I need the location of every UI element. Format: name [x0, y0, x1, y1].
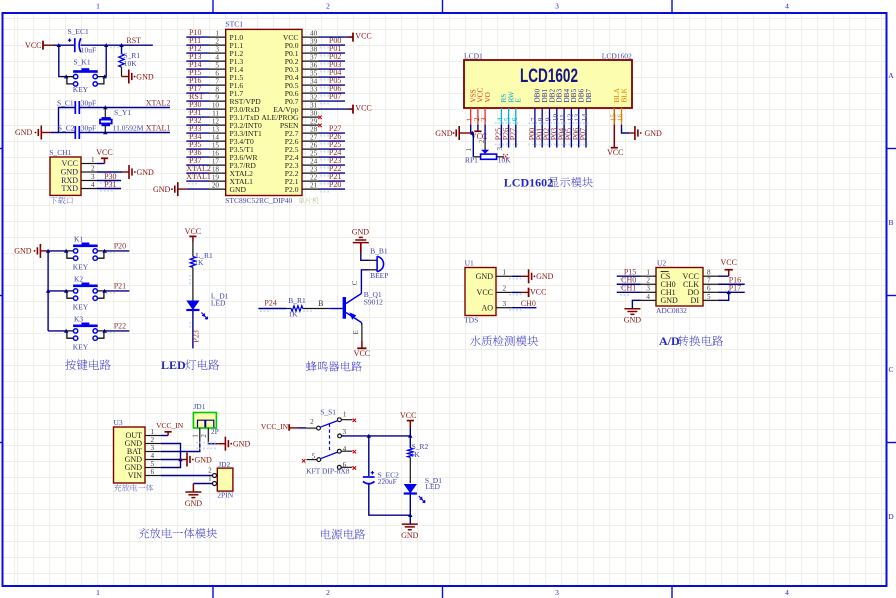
pin 1 STC1 P1.0 [209, 30, 243, 42]
capacitor S_C2 30pF [58, 123, 96, 139]
svg-text:1: 1 [465, 148, 473, 152]
svg-text:36: 36 [310, 62, 318, 70]
svg-text:D: D [888, 512, 894, 521]
wire net P01 (LCD1 pin 8) [535, 122, 545, 147]
pin 2 U3 [145, 436, 161, 444]
svg-text:B_B1: B_B1 [370, 246, 388, 255]
svg-text:4: 4 [785, 2, 789, 11]
caption key circuit [65, 359, 111, 370]
svg-text:GND: GND [476, 272, 494, 281]
svg-text:S_S1: S_S1 [320, 408, 336, 417]
wire net P10 (STC1 pin 1) [186, 28, 209, 40]
caption MCU [298, 197, 319, 203]
svg-text:1: 1 [503, 268, 507, 276]
wire net P05 (LCD1 pin 12) [564, 122, 574, 147]
capacitor S_C1 30pF [57, 98, 96, 114]
pin 3 U3 [145, 444, 161, 452]
wire net P30 (STC1 pin 10) [186, 100, 209, 112]
svg-text:XTAL2: XTAL2 [146, 98, 171, 107]
svg-text:P20: P20 [329, 180, 341, 189]
svg-text:LCD1602: LCD1602 [602, 51, 632, 60]
pin 6 U3 [145, 468, 161, 476]
junction (K1 left pin) [64, 249, 68, 253]
svg-text:LED: LED [211, 298, 226, 307]
wire cap to RST [81, 44, 153, 46]
ground (S_CH1 pin2) [97, 165, 154, 179]
junction (U3 gnd rail) [178, 457, 182, 461]
pin 4 S_CH1 [81, 181, 97, 189]
svg-text:10K: 10K [498, 155, 512, 164]
net label XTAL1 [146, 124, 171, 133]
svg-text:C: C [888, 365, 893, 374]
pin 2 S_CH1 [81, 164, 97, 172]
ground (JD1 pin2) [196, 437, 250, 451]
caption LCD1602 display module [504, 175, 593, 189]
svg-text:3: 3 [343, 428, 347, 436]
wire net P00 (STC1 pin 39) [319, 36, 346, 48]
ground (LCD1 BLK) [622, 125, 663, 140]
svg-text:26: 26 [310, 142, 318, 150]
wire net P14 (STC1 pin 5) [186, 60, 209, 72]
pin 37 STC1 P0.2 [285, 54, 319, 66]
svg-text:2: 2 [200, 434, 208, 438]
wire net P21 (STC1 pin 22) [319, 172, 346, 184]
svg-text:GND: GND [536, 272, 554, 281]
wire net P04 (STC1 pin 35) [319, 68, 346, 80]
wire P30 (S_CH1) [97, 172, 121, 184]
caption charger module [139, 528, 217, 538]
no connect (RP1 pin3) [503, 154, 507, 158]
svg-text:37: 37 [310, 54, 318, 62]
pin 3 STC1 P1.2 [209, 46, 243, 58]
connector S_CH1 (download port) [49, 148, 81, 195]
pin 2 STC1 P1.1 [209, 38, 243, 50]
svg-text:LCD1602: LCD1602 [520, 66, 578, 87]
svg-text:P17: P17 [729, 283, 741, 292]
wire VO to RP1 wiper [478, 125, 486, 150]
svg-text:1: 1 [151, 428, 155, 436]
power port VCC (reset) [25, 41, 53, 50]
svg-text:3: 3 [646, 285, 650, 293]
wire net P25 (STC1 pin 26) [319, 140, 346, 152]
svg-text:1: 1 [646, 269, 650, 277]
caption power circuit [321, 529, 365, 539]
power port VCC_IN (U3 pin1) [156, 421, 184, 436]
pin 40 STC1 VCC [283, 30, 319, 42]
svg-text:KFT DIP-8X8: KFT DIP-8X8 [306, 466, 350, 475]
pin 15 LCD1 BLA [608, 87, 621, 124]
ground (keys) [14, 244, 48, 258]
pin 36 STC1 P0.3 [285, 62, 319, 74]
pin 4 U2 [641, 293, 657, 301]
svg-text:2: 2 [310, 418, 314, 426]
wire K1 right leg [104, 45, 106, 76]
svg-text:1K: 1K [288, 309, 298, 318]
svg-text:VCC: VCC [355, 32, 371, 41]
svg-text:3: 3 [91, 173, 95, 181]
net label RST [110, 36, 141, 49]
svg-text:CH1: CH1 [621, 283, 636, 292]
wire net P06 (LCD1 pin 13) [571, 122, 581, 147]
connector JD1 2P battery [193, 402, 218, 436]
ground (LCD1 VSS) [435, 125, 470, 140]
pin 6 U2 [703, 285, 718, 293]
svg-text:2P: 2P [211, 427, 219, 436]
svg-text:14: 14 [580, 114, 589, 122]
switch S_K1 KEY [67, 57, 104, 94]
caption LED circuit [161, 358, 219, 372]
ground (buzzer) [352, 227, 370, 253]
svg-text:34: 34 [310, 78, 318, 86]
svg-text:S9012: S9012 [364, 297, 383, 306]
svg-text:29: 29 [310, 118, 318, 126]
svg-text:21: 21 [310, 182, 318, 190]
wire RP1 pin1 to GND net [471, 133, 474, 157]
wire net P02 (STC1 pin 37) [319, 52, 346, 64]
junction (K3 left pin) [64, 329, 68, 333]
switch K3 KEY [67, 315, 104, 352]
wire K1 left leg [59, 45, 67, 76]
svg-text:P27: P27 [509, 128, 518, 140]
resistor S_R1 10K [119, 45, 141, 76]
svg-text:P24: P24 [264, 298, 276, 307]
svg-text:3: 3 [496, 147, 504, 151]
wire net P25 (LCD1 pin 4) [494, 122, 504, 147]
svg-text:VCC: VCC [96, 148, 112, 157]
wire net XTAL2 (STC1 pin 18) [186, 164, 211, 176]
svg-text:220uF: 220uF [378, 477, 397, 486]
svg-text:20: 20 [212, 182, 220, 190]
svg-text:2: 2 [646, 277, 650, 285]
pin 20 STC1 GND [209, 182, 246, 194]
junction (K1 right) [104, 43, 108, 47]
ground (STC1 pin20) [153, 182, 209, 196]
power port VCC (STC1 pin40) [319, 32, 372, 42]
svg-text:XTAL1: XTAL1 [146, 124, 171, 133]
svg-text:3: 3 [479, 117, 488, 121]
power port VCC (LCD1 pin2) [471, 125, 487, 141]
svg-text:S_EC1: S_EC1 [68, 27, 90, 36]
svg-text:2: 2 [326, 2, 330, 11]
caption download port [50, 197, 73, 204]
svg-text:GND: GND [624, 316, 642, 325]
wire net P31 (STC1 pin 11) [186, 108, 209, 120]
svg-text:14: 14 [212, 134, 220, 142]
pin 3 S_CH1 [81, 173, 97, 181]
no connect (STC1 pin30) [318, 116, 321, 119]
svg-text:8: 8 [707, 269, 711, 277]
svg-text:VCC: VCC [25, 41, 41, 50]
junction (S_K1 right pin) [102, 74, 106, 78]
pin 16 STC1 P3.6/WR [209, 150, 258, 162]
svg-text:5: 5 [151, 460, 155, 468]
pin 7 LCD1 DB0 [529, 89, 542, 125]
wire net P07 (LCD1 pin 14) [579, 122, 589, 147]
wire net P26 (LCD1 pin 5) [501, 122, 511, 147]
junction (K2 right pin) [102, 289, 106, 293]
pin 11 LCD1 DB4 [558, 89, 571, 125]
junction (cap branch) [367, 434, 371, 438]
svg-text:P22: P22 [114, 321, 126, 330]
wire net CH0 (U2 pin2) [617, 275, 641, 287]
wire net P05 (STC1 pin 34) [319, 76, 346, 88]
pin 31 STC1 EA/Vpp [273, 102, 318, 114]
svg-text:23: 23 [310, 166, 318, 174]
svg-text:1K: 1K [411, 450, 421, 459]
svg-text:AO: AO [481, 303, 493, 312]
wire net P17 (U2 pin6) [718, 283, 745, 292]
svg-text:31: 31 [310, 102, 318, 110]
svg-text:VCC: VCC [477, 288, 493, 297]
svg-text:5: 5 [215, 62, 219, 70]
wire LED to ground [409, 494, 411, 525]
ground (power circuit) [401, 524, 419, 540]
pin 23 STC1 P2.2 [285, 166, 319, 178]
resistor L_R1 1K [190, 242, 213, 268]
net label XTAL2 [146, 98, 171, 107]
wire net P00 (LCD1 pin 7) [528, 122, 538, 147]
svg-text:VCC: VCC [355, 104, 371, 113]
svg-text:GND: GND [233, 440, 251, 449]
svg-text:5: 5 [707, 293, 711, 301]
no connect (S_S1 pin6) [353, 466, 356, 469]
IC LCD1 LCD1602 display [464, 51, 632, 108]
wire VCC to cap [53, 44, 75, 46]
svg-text:4: 4 [151, 452, 155, 460]
pin 17 STC1 P3.7/RD [209, 158, 256, 170]
capacitor S_EC1 10uF [68, 27, 97, 54]
caption AD convert circuit [659, 334, 723, 348]
svg-text:P21: P21 [114, 281, 126, 290]
svg-text:7: 7 [707, 277, 711, 285]
svg-text:38: 38 [310, 46, 318, 54]
svg-text:P20: P20 [114, 241, 126, 250]
wire net P03 (STC1 pin 36) [319, 60, 346, 72]
svg-text:S_Y1: S_Y1 [114, 108, 131, 117]
svg-text:ADC0832: ADC0832 [656, 306, 687, 315]
svg-text:S_CH1: S_CH1 [49, 148, 71, 157]
svg-text:3: 3 [151, 444, 155, 452]
svg-text:2: 2 [478, 139, 486, 143]
svg-text:K2: K2 [74, 275, 83, 284]
svg-text:GND: GND [153, 185, 171, 194]
wire net P15 (U2 pin1) [617, 267, 641, 279]
svg-text:VCC_IN: VCC_IN [261, 422, 289, 431]
net label P20 (key K1) [106, 241, 126, 254]
junction (K3 right pin) [102, 329, 106, 333]
wire net P20 (STC1 pin 21) [319, 180, 346, 192]
svg-text:GND: GND [401, 531, 419, 540]
wire net P15 (STC1 pin 6) [186, 68, 209, 80]
wire U3 pin6 VIN to JD2 [161, 475, 212, 477]
wire buzzer to collector [351, 270, 377, 292]
pin 2 U2 [641, 277, 657, 285]
wire net RST (STC1 pin 9) [186, 92, 209, 104]
svg-text:GND: GND [195, 455, 213, 464]
power port VCC (LCD1 BLA) [607, 108, 623, 157]
pin 29 STC1 PSEN [280, 118, 319, 130]
pin 26 STC1 P2.5 [285, 142, 319, 154]
svg-text:4: 4 [785, 588, 789, 597]
svg-text:U2: U2 [657, 259, 666, 268]
caption water quality module [470, 336, 538, 347]
junction (VCC/K1 left) [57, 43, 61, 47]
junction (R1 top) [119, 43, 123, 47]
svg-text:VIN: VIN [128, 471, 142, 480]
svg-text:E: E [515, 98, 523, 103]
pin 25 STC1 P2.4 [285, 150, 319, 162]
diode S_D1 LED [404, 476, 443, 503]
svg-text:30pF: 30pF [81, 123, 96, 132]
pin 13 LCD1 DB6 [573, 89, 586, 125]
wire net XTAL1 (STC1 pin 19) [186, 172, 211, 184]
pin 1 JD1 [192, 428, 200, 442]
svg-text:11: 11 [212, 110, 219, 118]
wire XTAL2 [79, 107, 170, 109]
svg-text:S_C2: S_C2 [58, 123, 75, 132]
svg-text:GND: GND [661, 296, 679, 305]
svg-text:16: 16 [616, 114, 625, 122]
svg-text:2: 2 [151, 436, 155, 444]
pin 38 STC1 P0.1 [285, 46, 319, 58]
pin 1 U2 [641, 269, 657, 277]
IC U2 ADC0832 [656, 259, 703, 316]
svg-text:1: 1 [192, 434, 200, 438]
svg-text:VCC: VCC [400, 411, 416, 420]
pin 3 LCD1 VO [479, 92, 492, 124]
svg-text:BEEP: BEEP [370, 271, 388, 280]
pin 4 LCD1 RS [495, 94, 508, 125]
pin 8 U2 [703, 269, 718, 277]
pin 34 STC1 P0.5 [285, 78, 319, 90]
svg-text:27: 27 [310, 134, 318, 142]
svg-text:P07: P07 [579, 128, 588, 140]
wire net CH1 (U2 pin3) [617, 283, 641, 295]
svg-text:VO: VO [484, 92, 492, 102]
wire crystal left rail [51, 108, 75, 133]
switch S_S1 KFT DIP-8X8 [297, 408, 352, 470]
pin 5 LCD1 RW [503, 91, 516, 124]
svg-text:10uF: 10uF [81, 45, 96, 54]
wire net P23 (STC1 pin 24) [319, 156, 346, 168]
pin 3 U1 [496, 300, 512, 308]
power port VCC (LED) [185, 227, 201, 241]
switch K1 KEY [67, 235, 104, 272]
wire net P03 (LCD1 pin 10) [550, 122, 560, 147]
pin 2 JD2 [208, 467, 217, 478]
pin 14 LCD1 DB7 [580, 89, 593, 125]
wire switch output [342, 435, 411, 437]
pin 4 STC1 P1.3 [209, 54, 243, 66]
svg-text:5: 5 [312, 453, 316, 461]
svg-text:7: 7 [215, 78, 219, 86]
svg-text:GND: GND [14, 247, 32, 256]
svg-text:TDS: TDS [464, 315, 478, 324]
svg-text:17: 17 [212, 158, 220, 166]
svg-text:P2.0: P2.0 [285, 185, 299, 194]
svg-text:8: 8 [215, 86, 219, 94]
svg-text:RP1: RP1 [465, 155, 478, 164]
wire key K2 row [48, 290, 129, 292]
wire key ground rail [47, 251, 49, 331]
svg-text:1: 1 [215, 30, 219, 38]
svg-text:U3: U3 [114, 418, 123, 427]
svg-text:KEY: KEY [73, 85, 89, 94]
wire net P02 (LCD1 pin 9) [542, 122, 552, 147]
svg-text:STC89C52RC_DIP40: STC89C52RC_DIP40 [225, 196, 292, 205]
wire U2 DI to DO [718, 292, 729, 300]
svg-text:6: 6 [510, 117, 519, 121]
svg-text:LCD1602: LCD1602 [504, 175, 553, 189]
svg-text:1: 1 [96, 588, 100, 597]
wire net P04 (LCD1 pin 11) [557, 122, 567, 147]
pin 6 LCD1 E [510, 98, 523, 125]
power port VCC (supply) [400, 411, 416, 436]
svg-text:10: 10 [212, 102, 220, 110]
net label P22 (key K3) [106, 321, 126, 334]
ground (JD2 pin1) [185, 484, 213, 509]
pin 12 STC1 P3.2/INT0 [209, 118, 262, 130]
svg-text:GND: GND [435, 129, 453, 138]
no connect (S_S1 pin5) [302, 459, 305, 462]
pin 21 STC1 P2.0 [285, 182, 319, 194]
wire net P36 (STC1 pin 16) [186, 148, 209, 160]
junction (crystal top) [103, 105, 107, 109]
junction (LCD GND node) [470, 131, 474, 135]
caption buzzer circuit [306, 361, 362, 371]
pin 7 U2 [703, 277, 718, 285]
svg-text:22: 22 [310, 174, 318, 182]
svg-text:GND: GND [230, 185, 247, 194]
svg-text:P23: P23 [192, 330, 201, 342]
pin 2 JD1 [200, 428, 208, 442]
no connect (STC1 pin29) [318, 124, 321, 127]
junction (K1 right pin) [102, 249, 106, 253]
pin 1 LCD1 VSS [465, 89, 478, 124]
wire U3 pin3 BAT to JD1 [161, 442, 200, 451]
svg-text:LCD1: LCD1 [464, 51, 483, 60]
power port VCC (U2 pin8) [718, 258, 737, 276]
svg-text:16: 16 [212, 150, 220, 158]
wire U3 gnd rail [161, 444, 181, 468]
pin 11 STC1 P3.1/TxD [209, 110, 260, 122]
pin 8 LCD1 DB1 [536, 89, 549, 125]
wire P31 (S_CH1) [97, 180, 121, 192]
wire net P26 (STC1 pin 27) [319, 132, 346, 144]
svg-text:25: 25 [310, 150, 318, 158]
svg-text:18: 18 [212, 166, 220, 174]
svg-text:2: 2 [208, 467, 212, 475]
junction (U2 DO/DI) [727, 290, 731, 294]
svg-text:6: 6 [215, 70, 219, 78]
svg-text:XTAL1: XTAL1 [186, 172, 211, 181]
wire net P01 (STC1 pin 38) [319, 44, 346, 56]
svg-text:E: E [352, 330, 360, 334]
pin 9 LCD1 DB2 [544, 89, 557, 125]
switch K2 KEY [67, 275, 104, 312]
svg-text:2: 2 [326, 588, 330, 597]
pin 19 STC1 XTAL1 [209, 174, 253, 186]
svg-text:GND: GND [137, 168, 155, 177]
pin 3 U2 [641, 285, 657, 293]
svg-text:VCC: VCC [607, 148, 623, 157]
pin 5 U2 [703, 293, 718, 301]
wire resistor to LED [189, 267, 193, 300]
wire net P33 (STC1 pin 13) [186, 124, 209, 136]
svg-text:9: 9 [215, 94, 219, 102]
pin 10 LCD1 DB3 [551, 89, 564, 125]
pin 22 STC1 P2.1 [285, 174, 319, 186]
